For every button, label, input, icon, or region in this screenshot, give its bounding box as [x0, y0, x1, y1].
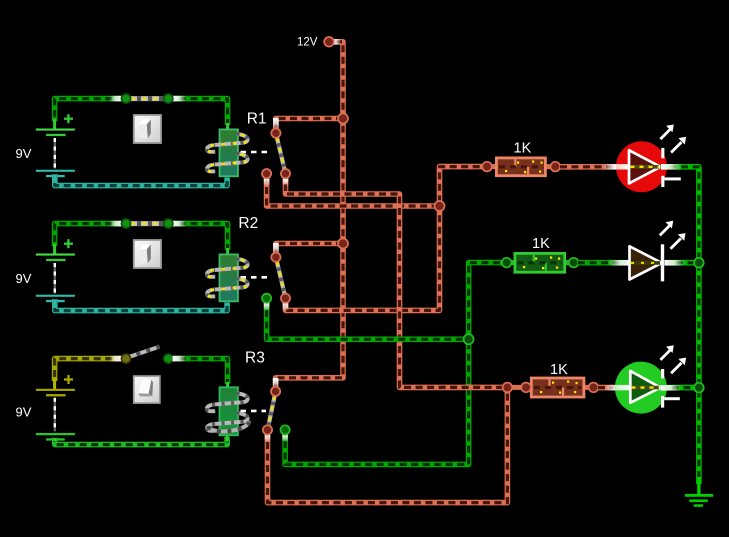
relay R2 common node	[271, 253, 280, 262]
switch S2 closed contact bar (gray, current flowing)	[126, 221, 168, 226]
battery B1 internal link (white dashed)	[54, 138, 56, 169]
LED D1 light arrows	[660, 125, 686, 153]
battery B1 plus sign	[64, 114, 73, 123]
battery B1 negative plates (teal)	[36, 170, 75, 178]
switch S2 right contact dot	[164, 219, 173, 228]
wire: R1 NO contact to green LED resistor row	[283, 176, 502, 387]
node: resistor RL3 right terminal	[589, 383, 599, 393]
switch S2 toggle icon box (state 1)	[133, 239, 162, 269]
relay R3 coil winding (no current)	[207, 393, 248, 431]
svg-text:R2: R2	[238, 215, 258, 232]
wire: LED D2 to right bus (green)	[665, 260, 698, 266]
svg-text:12V: 12V	[297, 37, 318, 49]
wire: R2 NC contact to white LED net (green)	[264, 301, 469, 339]
switch S3 toggle icon box (state 0)	[133, 375, 161, 404]
svg-text:1K: 1K	[532, 236, 550, 252]
wire: R3 NC contact to green LED resistor (bottom red run)	[265, 387, 508, 502]
wire: R1 NC contact to red LED resistor (via junction)	[264, 167, 482, 206]
relay R1 coil-switch link (dashed)	[241, 151, 272, 154]
node: resistor RL1 left terminal	[482, 162, 492, 172]
battery B2 negative plates (teal)	[36, 295, 75, 302]
wire: 12V supply rail down the middle	[273, 39, 343, 388]
node: 12V supply terminal	[324, 37, 334, 47]
relay R2 coil-switch link (dashed)	[241, 276, 272, 279]
battery B3 top wire right segment (green)	[173, 356, 228, 389]
battery B1 positive plates (green)	[36, 129, 75, 137]
battery B2 internal link (white dashed)	[54, 263, 56, 294]
wire: resistor RL2 to white LED D2	[578, 260, 630, 266]
relay R2 NO contact node	[281, 294, 290, 303]
LED D1 (red, lit) body	[603, 141, 667, 192]
node: green LED net junction (R1 NO / R3 NC)	[503, 383, 513, 393]
LED D3 light arrows	[660, 345, 686, 373]
relay R2 NC contact node (green net)	[262, 294, 271, 303]
node: resistor RL3 left terminal	[521, 383, 531, 393]
LED D1 cathode bar	[661, 148, 681, 187]
node: resistor RL2 right terminal	[569, 258, 579, 268]
battery B1 circuit loop wiring (top, green)	[55, 96, 228, 131]
LED D3 (green, lit) body	[604, 362, 667, 414]
wire: LED D1 to right bus (green)	[661, 164, 699, 484]
wire: R2 NO contact up to red LED net junction	[283, 206, 440, 311]
battery B3 circuit loop wiring (top left, olive - no current)	[55, 356, 122, 389]
switch S1 closed contact bar (gray, current flowing)	[126, 96, 168, 101]
ground symbol	[685, 477, 713, 507]
junction: 12V rail to R2 common	[338, 239, 348, 249]
relay R1 NO contact node	[281, 169, 290, 178]
battery B3 positive plates (olive)	[36, 389, 75, 397]
relay R3 coil-switch link (dashed)	[241, 410, 267, 413]
switch S2 left contact dot	[121, 219, 130, 228]
battery B2 plus sign	[64, 239, 73, 248]
svg-text:1K: 1K	[550, 362, 568, 378]
relay R2 armature (common to NO contact, energized)	[276, 257, 286, 298]
relay R1 NC contact node	[262, 169, 271, 178]
svg-text:9V: 9V	[16, 146, 32, 161]
switch S3 right contact dot (green)	[164, 354, 173, 363]
wire: relay R2 common feed from 12V rail	[273, 243, 343, 254]
switch S1 left contact dot	[121, 94, 130, 103]
LED D2 light arrows	[660, 221, 686, 249]
relay R3 common node	[271, 387, 280, 396]
battery B2 positive plates (green)	[36, 254, 75, 262]
relay R3 NO contact node (green net)	[281, 425, 290, 434]
relay R3 armature (common to NC contact, relaxed)	[268, 391, 276, 430]
relay R2 coil winding (current flowing)	[207, 259, 248, 297]
LED D2 (white, off) body	[630, 246, 662, 279]
switch S1 right contact dot	[164, 94, 173, 103]
svg-text:1K: 1K	[514, 140, 532, 156]
svg-text:R3: R3	[245, 350, 265, 367]
relay R3 NC contact node	[263, 425, 272, 434]
relay R2 coil body	[220, 254, 238, 301]
relay R1 armature (common to NO contact, energized)	[276, 133, 286, 174]
junction: white LED net (R2 NC / R3 NO)	[464, 334, 474, 344]
wire: white LED net riser to resistor	[469, 263, 502, 340]
battery B1 bottom return wire (teal)	[55, 174, 227, 186]
junction: green LED row on right bus	[694, 383, 704, 393]
battery B3 negative plates (bright green)	[36, 433, 75, 441]
node: resistor RL2 left terminal	[502, 258, 512, 268]
resistor RL2 body (green, 1K)	[503, 253, 578, 272]
relay R1 coil winding (current flowing)	[207, 134, 248, 172]
battery B3 internal link (white dashed)	[54, 398, 56, 432]
resistor RL3 body (red, 1K)	[507, 378, 598, 397]
wire: resistor RL1 to red LED D1	[560, 164, 630, 170]
resistor RL1 body (red, 1K)	[484, 158, 560, 176]
node: resistor RL1 right terminal	[551, 162, 561, 172]
wire: resistor RL3 to green LED D3	[598, 385, 630, 391]
battery B2 circuit loop wiring (top, green)	[55, 221, 228, 256]
svg-text:9V: 9V	[16, 405, 32, 420]
relay R3 coil body	[220, 387, 238, 435]
svg-text:9V: 9V	[16, 271, 32, 286]
junction: red LED net (R1 NC / R2 NO)	[435, 201, 445, 211]
wire: LED D3 to right bus (green)	[660, 385, 697, 391]
wire: R3 NO contact to white LED net (green, bottom run)	[282, 339, 468, 464]
wire: relay R1 common feed from 12V rail	[273, 118, 343, 129]
battery B3 plus sign (olive)	[64, 375, 73, 384]
relay R1 common node	[271, 129, 280, 138]
battery B3 bottom return wire (bright green)	[55, 436, 227, 445]
relay R1 coil body	[220, 129, 238, 176]
battery B2 bottom return wire (teal)	[55, 299, 227, 311]
switch S1 toggle icon box (state 1)	[133, 114, 162, 144]
junction: white LED row on right bus	[694, 258, 704, 268]
switch S3 open lever arm	[127, 347, 160, 358]
svg-text:R1: R1	[247, 111, 267, 128]
LED D2 cathode bar	[661, 244, 664, 281]
LED D3 cathode bar	[661, 369, 680, 408]
junction: 12V rail to R1 common	[338, 114, 348, 124]
switch S3 pivot contact dot (olive)	[121, 354, 130, 363]
